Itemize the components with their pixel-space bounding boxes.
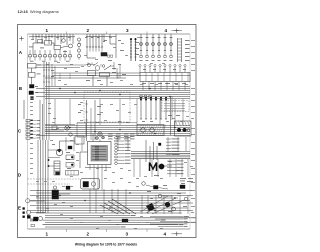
fuse box outline xyxy=(88,142,112,165)
svg-text:B: B xyxy=(19,86,22,91)
wiper linkage wires xyxy=(145,140,147,162)
wire above fusebox strip xyxy=(77,122,137,124)
fuel pump circle with spokes xyxy=(98,132,102,136)
ignition coil solid xyxy=(52,190,59,199)
switch contact box B2b xyxy=(100,73,110,77)
wiper switch arc xyxy=(87,63,90,66)
wire links D1 xyxy=(48,149,60,151)
wire verticals x52-58 B1 xyxy=(51,64,53,86)
grid tick marks top xyxy=(66,32,68,35)
column wire pair left C1 xyxy=(23,100,25,119)
ignition switch S1 box xyxy=(45,41,52,46)
black box F1 xyxy=(34,217,39,221)
connector list rows right of fuse box xyxy=(114,137,117,139)
switch lever diagonal xyxy=(104,66,111,71)
svg-text:3: 3 xyxy=(126,232,129,237)
registration cross left margin xyxy=(19,38,23,40)
wire risers C2 xyxy=(86,100,88,141)
left grid rule xyxy=(27,34,29,229)
wire drops B1 xyxy=(31,68,33,73)
bottom run-out wires with labels xyxy=(45,215,130,217)
vertical drops band1 to band2 xyxy=(54,99,56,125)
svg-text:1: 1 xyxy=(46,28,49,33)
label speckle region A1 xyxy=(36,35,39,38)
label speckle B3 xyxy=(143,68,146,71)
rear connector black box 2 xyxy=(154,186,159,190)
label speckle B1 xyxy=(37,64,41,67)
plug connector marks row C3 xyxy=(140,97,142,98)
legend dashed box C3 xyxy=(162,101,189,112)
bottom right run-outs xyxy=(150,216,183,218)
coil hatch marks xyxy=(30,219,32,222)
wire bends region A2 xyxy=(86,52,88,59)
junction dots lower band xyxy=(59,195,60,196)
fuse elements xyxy=(92,146,107,148)
rear harness blob 1 xyxy=(146,203,155,211)
rear diagonal wires xyxy=(140,196,168,212)
rear lamp filled circle xyxy=(165,202,170,207)
vertical drops into bottom rows xyxy=(89,189,91,213)
junction dots middle band xyxy=(69,127,70,128)
top distribution bus left xyxy=(29,36,75,38)
tick marks on B1 verticals xyxy=(43,69,45,71)
svg-text:2: 2 xyxy=(87,28,90,33)
scattered label speckle overall xyxy=(31,38,34,41)
right grid rule xyxy=(189,34,191,229)
terminal squares left edge xyxy=(23,208,25,210)
svg-text:Wiring diagram for 1976 to 197: Wiring diagram for 1976 to 1977 models xyxy=(75,243,137,247)
svg-text:3: 3 xyxy=(126,28,129,33)
block internal divisions xyxy=(145,73,147,82)
parking lamp circle E1 xyxy=(26,210,30,214)
black dots on bundle D1 xyxy=(48,159,50,161)
bus band into right margin xyxy=(131,151,190,153)
vertical drops right lower xyxy=(141,195,143,214)
relay box D1 lower xyxy=(66,163,74,168)
wire A1 horizontal links xyxy=(33,42,45,44)
small motor circle C1 xyxy=(69,133,72,136)
small box left of fusebox xyxy=(75,136,84,144)
panel lamp columns xyxy=(140,34,142,43)
switch list rows C1 xyxy=(26,120,30,122)
main harness bus band upper xyxy=(45,86,190,88)
rear connector black box 1 xyxy=(180,185,185,189)
chain column x135-5 xyxy=(135,38,137,61)
black terminal near D3 column xyxy=(159,143,162,146)
label rows above fusebox xyxy=(108,133,113,136)
coil hv circle xyxy=(53,186,56,189)
dashed firewall line E1 xyxy=(28,178,81,180)
alternator G1 circle xyxy=(69,44,73,48)
label speckle D1 xyxy=(66,151,70,154)
fuse box feed wires xyxy=(92,134,94,142)
sub panel box outline C1 xyxy=(77,123,86,137)
ladder connector strip right x178 xyxy=(177,38,179,62)
distributor circle D1 xyxy=(56,149,62,155)
outer frame xyxy=(18,25,197,238)
blower motor circles xyxy=(141,128,145,132)
top distribution bus centre xyxy=(86,36,116,38)
mid-left component cluster wires xyxy=(45,124,75,126)
label speckle D3 xyxy=(154,174,159,177)
rear cluster wires xyxy=(146,185,154,187)
circuit breaker block bottom xyxy=(122,219,128,222)
left harness bundle verticals xyxy=(37,140,39,213)
fuse holder box left xyxy=(28,73,35,78)
svg-text:E: E xyxy=(18,206,21,211)
right component block with circles xyxy=(175,121,192,136)
flat connector box D1 xyxy=(66,171,79,176)
wire drops C3 xyxy=(140,101,142,119)
dashed harness boundary B2 xyxy=(84,92,130,122)
bus lines y73-79 xyxy=(52,72,140,74)
main harness bus band lower xyxy=(30,190,192,192)
fuse box inner shaded block xyxy=(91,146,108,162)
black terminal D1 xyxy=(68,146,72,149)
svg-text:D: D xyxy=(18,173,21,178)
black connector pair E1 xyxy=(27,215,30,218)
rear lamp open circle xyxy=(172,207,176,211)
top grid rule xyxy=(28,33,191,35)
legend text lines xyxy=(164,102,185,105)
fuse box top symbols xyxy=(96,137,99,140)
flasher internals solid xyxy=(83,182,89,188)
svg-text:12•16Wiring diagrams: 12•16Wiring diagrams xyxy=(18,9,59,14)
black connector E1 mid xyxy=(66,186,70,190)
flasher relay rounded box xyxy=(81,179,100,190)
registration cross top right xyxy=(175,30,179,32)
wire drops below block B3 xyxy=(142,82,144,91)
label speckle B2 xyxy=(112,67,116,70)
diagonal wire fan bottom centre xyxy=(100,205,118,214)
svg-text:2: 2 xyxy=(87,232,90,237)
wire drop x104 xyxy=(103,34,105,42)
resistor ladder box D1 xyxy=(54,161,60,175)
ignition distributor circle-x xyxy=(65,126,69,130)
voltage regulator box xyxy=(28,64,37,69)
main harness bus band middle xyxy=(45,125,190,127)
turn signal switch circle xyxy=(95,66,100,71)
sender box C1 xyxy=(52,126,57,130)
lamp circle F1 left xyxy=(39,217,43,221)
switch contact box B2a xyxy=(88,71,96,76)
small box E1 bottom xyxy=(31,225,35,227)
relay stack left of column 2 xyxy=(77,38,80,41)
small terminal marks B1 xyxy=(31,97,34,98)
far right terminal labels D3 xyxy=(166,138,171,140)
vertical drops band2 to band3 xyxy=(65,137,67,151)
terminal box pair x108 xyxy=(108,55,110,57)
vertical drops band3 to lower band xyxy=(133,159,135,177)
harness junction dots upper band xyxy=(59,88,60,89)
wiper motor M symbol xyxy=(150,163,157,172)
labels under block B3 xyxy=(142,82,146,85)
label speckle E3 xyxy=(147,190,151,193)
ignition lamp circle xyxy=(62,39,66,43)
link wires from regulator to centre xyxy=(36,64,86,66)
svg-text:4: 4 xyxy=(164,232,167,237)
wire drop from top rule region A1 xyxy=(32,34,34,40)
relay box D1 upper xyxy=(66,155,74,160)
horn H2 solid symbol xyxy=(29,91,34,95)
wire stubs below row A1 xyxy=(29,57,31,60)
small circles row y95 B3 xyxy=(140,95,143,98)
label speckle region A2 xyxy=(85,36,88,39)
dash panel long block xyxy=(140,73,190,82)
distributor lamp circle E1 xyxy=(26,199,30,203)
connector pins under column 2 xyxy=(86,47,88,52)
right margin rows y160-176 xyxy=(167,160,176,162)
rear small circles E3 xyxy=(142,182,146,186)
registration cross bottom right xyxy=(175,233,179,235)
right margin label speckle A3 xyxy=(185,39,190,42)
junction box small J1 xyxy=(101,53,107,57)
heater blower hatched block xyxy=(137,125,164,136)
extra switch contacts B2 xyxy=(87,63,89,66)
label speckle C2 xyxy=(97,105,101,108)
wire drops column 2 xyxy=(86,34,88,47)
rear corner label cluster xyxy=(180,177,186,180)
grid tick marks bottom xyxy=(66,229,68,232)
taps from bus y73-79 xyxy=(59,73,61,79)
chain column x131 xyxy=(130,38,132,61)
horn H1 solid symbol xyxy=(30,85,35,89)
connector pin row above block B3 xyxy=(139,64,141,66)
small fuse box A1 xyxy=(38,40,43,43)
component row along y=55 region A1 xyxy=(29,50,31,55)
fuse box bottom exits xyxy=(89,165,91,171)
flasher internals coil xyxy=(91,182,95,186)
fuse box long drops to lower band xyxy=(93,170,95,190)
svg-text:4: 4 xyxy=(165,28,168,33)
thick vertical pair x171 xyxy=(170,96,172,135)
wire links E1 xyxy=(30,200,45,202)
riser terminal ticks C2 xyxy=(85,103,87,105)
wiper motor body circle xyxy=(159,164,164,169)
left harness bundle verticals upper pair xyxy=(39,100,41,140)
starter relay K1 box xyxy=(54,46,61,50)
bottom grid rule xyxy=(28,228,191,230)
wire verticals x44-50 region B1 xyxy=(43,62,45,86)
label speckle C3 xyxy=(168,114,172,117)
column wires down B2 xyxy=(106,77,108,87)
svg-text:1: 1 xyxy=(46,232,49,237)
